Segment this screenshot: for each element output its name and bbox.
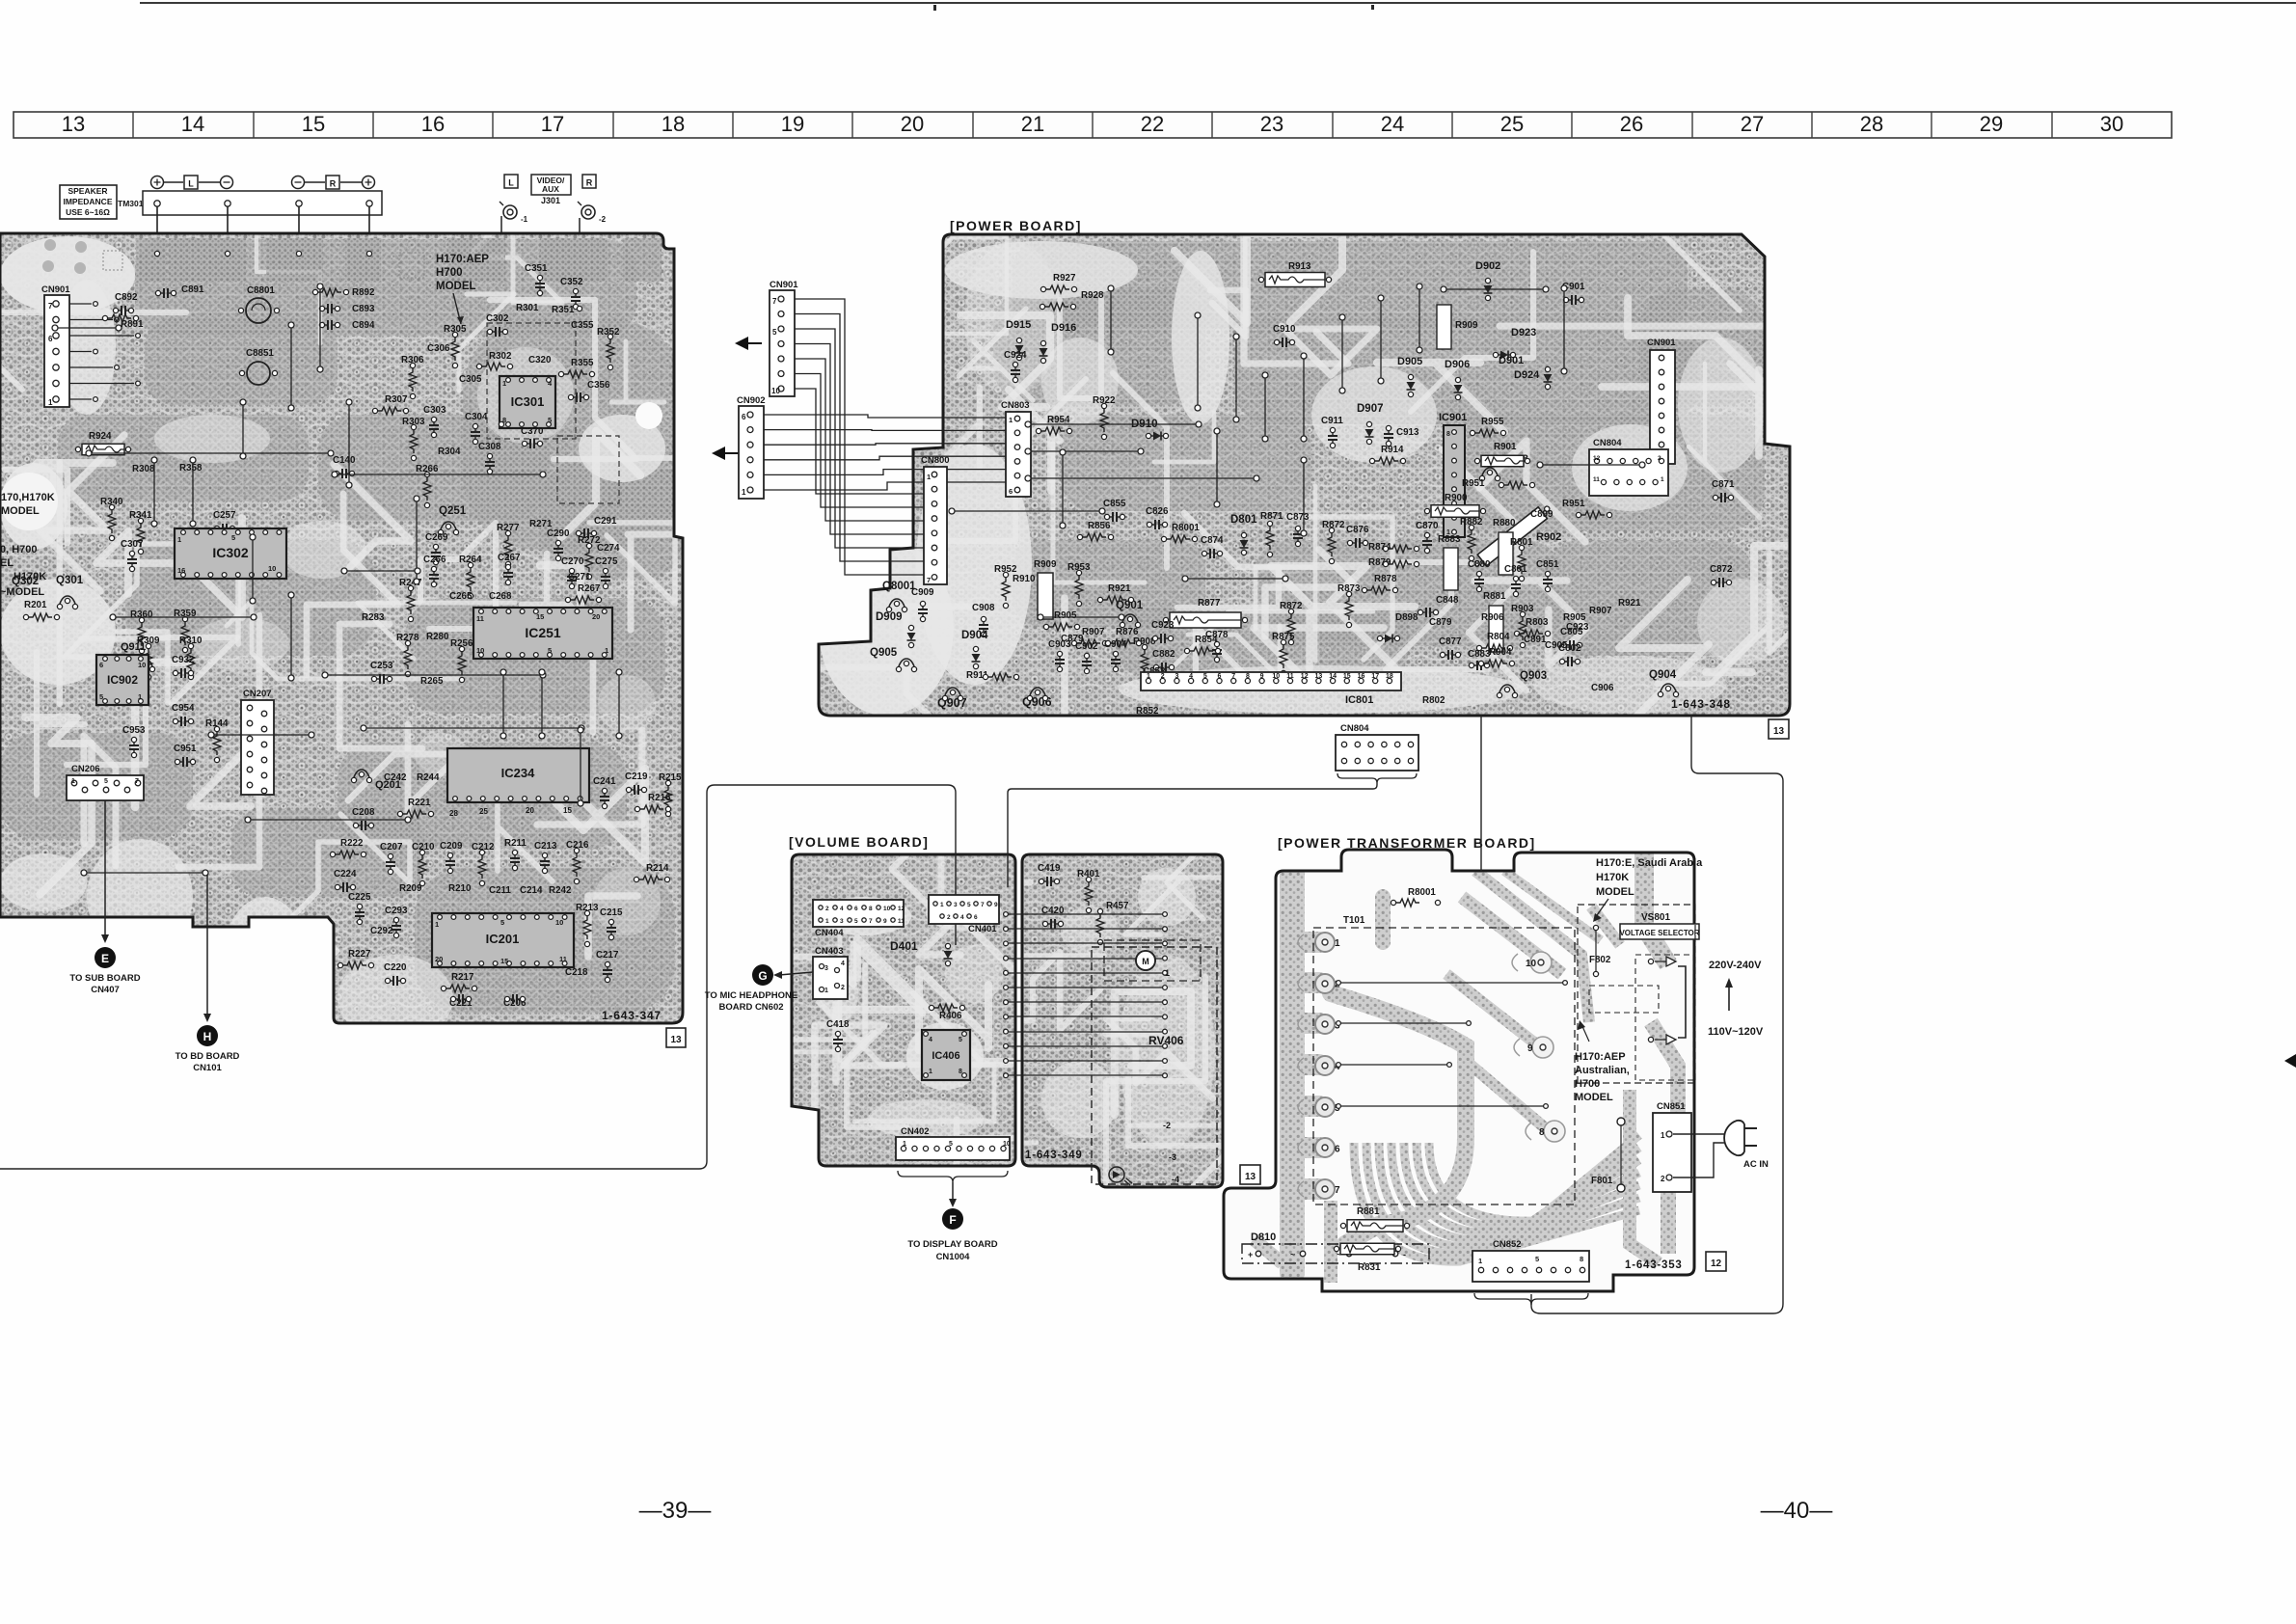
svg-text:10: 10 <box>1272 673 1280 680</box>
bracket under CN804 <box>1337 773 1417 783</box>
svg-text:IMPEDANCE: IMPEDANCE <box>63 197 112 206</box>
svg-text:C801: C801 <box>1504 564 1527 575</box>
svg-text:C953: C953 <box>122 725 146 736</box>
motor M redraw over ladder <box>1136 951 1155 970</box>
svg-text:T101: T101 <box>1343 915 1365 926</box>
svg-text:C906: C906 <box>1591 683 1614 693</box>
svg-text:14: 14 <box>181 112 204 136</box>
svg-text:D898: D898 <box>1395 612 1418 623</box>
svg-text:G: G <box>758 969 767 983</box>
svg-text:6: 6 <box>1218 673 1222 680</box>
svg-text:1: 1 <box>929 1069 932 1075</box>
svg-text:2: 2 <box>1658 455 1661 462</box>
svg-text:15: 15 <box>500 957 508 965</box>
svg-text:R267: R267 <box>578 583 601 594</box>
svg-text:R891: R891 <box>121 319 144 330</box>
svg-text:BOARD CN602: BOARD CN602 <box>718 1002 783 1013</box>
svg-text:R304: R304 <box>438 447 461 457</box>
svg-text:7: 7 <box>772 297 777 306</box>
svg-text:-4: -4 <box>1172 1175 1179 1184</box>
IC902 <box>96 655 149 705</box>
svg-text:IC901: IC901 <box>1439 412 1467 423</box>
svg-text:C924: C924 <box>1004 350 1027 361</box>
svg-text:1: 1 <box>1661 1131 1665 1140</box>
svg-text:26: 26 <box>1620 112 1643 136</box>
svg-text:C271: C271 <box>568 572 591 582</box>
svg-text:5: 5 <box>1535 1255 1539 1263</box>
svg-text:25: 25 <box>1500 112 1524 136</box>
svg-text:R892: R892 <box>352 287 375 298</box>
svg-text:20: 20 <box>435 955 443 963</box>
svg-text:D915: D915 <box>1006 319 1031 331</box>
svg-text:C267: C267 <box>498 553 521 563</box>
svg-text:1: 1 <box>940 902 944 908</box>
svg-text:R854: R854 <box>1195 635 1218 645</box>
svg-text:220V-240V: 220V-240V <box>1709 960 1762 971</box>
svg-text:Q904: Q904 <box>1649 669 1677 681</box>
svg-text:R906: R906 <box>1481 612 1504 623</box>
svg-text:C855: C855 <box>1103 499 1126 509</box>
svg-text:2: 2 <box>825 906 829 912</box>
svg-text:H170:AEP: H170:AEP <box>1575 1051 1626 1063</box>
svg-text:17: 17 <box>541 112 564 136</box>
svg-text:11: 11 <box>1593 476 1600 483</box>
svg-text:6: 6 <box>48 335 53 343</box>
svg-text:C217: C217 <box>596 950 619 961</box>
svg-text:C876: C876 <box>1346 525 1369 535</box>
svg-text:8: 8 <box>1580 1255 1583 1263</box>
svg-text:AC IN: AC IN <box>1743 1159 1769 1170</box>
svg-text:11: 11 <box>559 955 567 963</box>
svg-text:2: 2 <box>841 985 845 991</box>
svg-text:C208: C208 <box>352 807 375 818</box>
svg-text:C302: C302 <box>486 313 509 324</box>
svg-text:11: 11 <box>898 918 905 925</box>
svg-text:170,H170K: 170,H170K <box>1 492 55 503</box>
svg-text:4: 4 <box>840 906 844 912</box>
VS801 inner dashed boxes <box>1635 955 1693 1080</box>
svg-text:12: 12 <box>1711 1259 1722 1269</box>
svg-text:6: 6 <box>854 906 858 912</box>
svg-text:CN1004: CN1004 <box>936 1252 971 1262</box>
svg-text:11: 11 <box>476 614 484 623</box>
speaker polarity symbols left channel <box>151 176 233 189</box>
svg-text:C209: C209 <box>440 841 463 852</box>
svg-text:C894: C894 <box>352 320 375 331</box>
svg-text:-3: -3 <box>1169 1152 1176 1162</box>
svg-text:D907: D907 <box>1357 403 1384 415</box>
svg-text:7: 7 <box>869 918 873 925</box>
svg-text:C274: C274 <box>597 543 620 554</box>
svg-text:CN852: CN852 <box>1493 1239 1522 1250</box>
copper traces right region <box>1591 853 1678 1263</box>
svg-text:5: 5 <box>231 533 235 542</box>
svg-text:C892: C892 <box>115 292 138 303</box>
svg-text:R905: R905 <box>1054 610 1077 621</box>
sheet index box 13 main board <box>666 1028 686 1047</box>
svg-text:C275: C275 <box>595 556 618 567</box>
svg-text:C911: C911 <box>1321 416 1343 426</box>
svg-text:13: 13 <box>1315 673 1323 680</box>
svg-text:R881: R881 <box>1483 591 1506 602</box>
svg-text:VS801: VS801 <box>1641 912 1670 923</box>
svg-text:C910: C910 <box>1273 324 1296 335</box>
svg-text:5: 5 <box>99 692 103 701</box>
svg-text:3: 3 <box>840 918 844 925</box>
wire to flag H <box>206 873 208 1015</box>
svg-text:M: M <box>1142 957 1149 966</box>
svg-text:L: L <box>188 179 194 189</box>
svg-text:R211: R211 <box>504 838 527 849</box>
svg-text:7: 7 <box>48 302 53 311</box>
svg-text:1-643-348: 1-643-348 <box>1671 697 1731 711</box>
rectangle around motor <box>1104 940 1201 981</box>
svg-text:21: 21 <box>1021 112 1044 136</box>
dotted mounting square A <box>103 251 122 270</box>
svg-text:C207: C207 <box>380 842 403 853</box>
svg-text:19: 19 <box>781 112 804 136</box>
svg-text:TO MIC HEADPHONE: TO MIC HEADPHONE <box>705 990 797 1001</box>
svg-text:10: 10 <box>1003 1141 1011 1148</box>
svg-text:20: 20 <box>901 112 924 136</box>
sheet index box 13 power board <box>1769 719 1789 739</box>
svg-text:R878: R878 <box>1374 574 1397 584</box>
svg-text:5: 5 <box>772 328 777 337</box>
svg-text:28: 28 <box>449 809 458 818</box>
svg-text:C293: C293 <box>385 906 408 916</box>
svg-text:R910: R910 <box>1013 574 1036 584</box>
jumper wires power board <box>955 289 1639 617</box>
svg-text:C954: C954 <box>172 703 195 714</box>
svg-text:EL: EL <box>0 557 14 569</box>
svg-text:5: 5 <box>104 778 108 785</box>
svg-text:Q903: Q903 <box>1520 670 1547 682</box>
svg-text:MODEL: MODEL <box>1596 886 1634 898</box>
svg-text:10: 10 <box>1526 959 1537 969</box>
svg-text:-: - <box>1403 1250 1406 1259</box>
sheet index box 12 <box>1706 1252 1726 1271</box>
svg-text:H170:E, Saudi Arabia: H170:E, Saudi Arabia <box>1596 857 1703 869</box>
svg-text:C870: C870 <box>1416 521 1439 531</box>
svg-text:15: 15 <box>302 112 325 136</box>
svg-text:D902: D902 <box>1475 260 1500 272</box>
VIDEO/AUX jacks J301 <box>500 175 607 422</box>
svg-text:1: 1 <box>502 379 506 388</box>
svg-text:2: 2 <box>1661 1175 1665 1183</box>
svg-text:13: 13 <box>1245 1172 1256 1182</box>
svg-text:1: 1 <box>435 920 439 929</box>
flag E to sub board <box>95 947 116 968</box>
bracket under CN402 <box>898 1171 1008 1182</box>
svg-text:C307: C307 <box>121 539 144 550</box>
svg-text:D801: D801 <box>1230 514 1257 526</box>
svg-text:H170K: H170K <box>14 571 46 582</box>
ladder wires CN401 to motor sub board <box>1009 914 1162 1075</box>
right edge registration mark <box>2284 1054 2296 1068</box>
svg-text:1: 1 <box>138 692 142 701</box>
pads on speaker wires <box>154 251 159 256</box>
svg-text:C899: C899 <box>1530 509 1553 520</box>
svg-text:L: L <box>508 178 514 188</box>
svg-text:C848: C848 <box>1436 595 1459 606</box>
svg-text:-2: -2 <box>599 215 607 224</box>
svg-text:IC301: IC301 <box>511 394 545 409</box>
svg-text:C220: C220 <box>384 962 407 973</box>
svg-text:C291: C291 <box>594 516 617 527</box>
svg-text:IC302: IC302 <box>212 545 249 560</box>
svg-text:F802: F802 <box>1589 955 1611 965</box>
svg-text:AUX: AUX <box>542 184 559 194</box>
svg-text:R955: R955 <box>1481 417 1504 427</box>
svg-text:C893: C893 <box>352 304 375 314</box>
page top edge line <box>140 2 2296 4</box>
T101 secondary pads 10 9 8 <box>1530 952 1552 973</box>
svg-text:7: 7 <box>981 902 985 908</box>
svg-text:USE 6~16Ω: USE 6~16Ω <box>66 207 110 217</box>
svg-text:R308: R308 <box>132 464 155 474</box>
svg-text:C218: C218 <box>565 967 588 978</box>
svg-text:CN901: CN901 <box>1647 338 1676 348</box>
svg-text:C213: C213 <box>534 841 557 852</box>
svg-text:F801: F801 <box>1591 1176 1613 1186</box>
svg-text:D909: D909 <box>876 611 903 623</box>
svg-text:F: F <box>949 1213 956 1227</box>
svg-text:C908: C908 <box>972 603 995 613</box>
svg-text:C923: C923 <box>1566 622 1589 633</box>
potentiometer RV406 dashed outline <box>1092 947 1217 1184</box>
svg-text:17: 17 <box>1371 673 1379 680</box>
svg-text:MODEL: MODEL <box>1575 1092 1613 1103</box>
svg-text:20: 20 <box>592 612 600 621</box>
svg-text:1: 1 <box>1335 938 1340 949</box>
fusible resistor R831 transformer <box>1334 1246 1338 1251</box>
svg-text:CN803: CN803 <box>1001 400 1030 411</box>
svg-text:C356: C356 <box>587 380 610 391</box>
svg-text:C418: C418 <box>826 1019 850 1030</box>
T101 dashed outline <box>1313 928 1575 1204</box>
svg-text:C880: C880 <box>1468 559 1491 570</box>
svg-text:C873: C873 <box>1286 512 1310 523</box>
svg-text:CN901: CN901 <box>770 280 798 290</box>
svg-text:R: R <box>330 179 337 189</box>
svg-text:R877: R877 <box>1198 598 1221 609</box>
svg-text:C290: C290 <box>547 528 570 539</box>
voltage range arrow <box>1728 986 1730 1011</box>
svg-text:R804: R804 <box>1487 632 1510 642</box>
svg-text:8: 8 <box>1539 1127 1545 1138</box>
svg-text:R: R <box>586 178 593 188</box>
svg-text:R358: R358 <box>179 463 203 474</box>
svg-text:1: 1 <box>1478 1257 1482 1265</box>
svg-text:1-643-349: 1-643-349 <box>1025 1150 1083 1161</box>
svg-text:CN404: CN404 <box>815 928 844 938</box>
IC234 <box>447 748 589 818</box>
svg-text:16: 16 <box>177 566 185 575</box>
copper diagonal traces center <box>1446 871 1601 1130</box>
svg-text:3: 3 <box>954 902 958 908</box>
svg-text:R280: R280 <box>426 632 449 642</box>
svg-text:C268: C268 <box>489 591 512 602</box>
svg-text:5: 5 <box>949 1141 953 1148</box>
svg-text:TO DISPLAY BOARD: TO DISPLAY BOARD <box>907 1239 997 1250</box>
svg-text:6: 6 <box>1009 487 1013 496</box>
svg-text:5: 5 <box>500 918 504 927</box>
svg-text:4: 4 <box>1189 673 1193 680</box>
copper traces bottom bundle <box>1254 1135 1639 1283</box>
svg-text:C882: C882 <box>1152 649 1175 660</box>
svg-text:6: 6 <box>742 413 746 421</box>
svg-text:C265: C265 <box>449 591 473 602</box>
connector CN404 <box>813 900 904 927</box>
svg-text:5: 5 <box>548 646 552 655</box>
svg-text:R209: R209 <box>399 883 422 894</box>
svg-text:C909: C909 <box>911 587 934 598</box>
svg-text:CN207: CN207 <box>243 689 272 699</box>
dotted mounting square B <box>399 253 424 278</box>
svg-text:H700: H700 <box>436 267 463 279</box>
svg-text:R214: R214 <box>646 863 669 874</box>
svg-text:CN401: CN401 <box>968 924 997 934</box>
svg-text:C872: C872 <box>1710 564 1733 575</box>
connector CN401 <box>929 895 999 924</box>
svg-text:C242: C242 <box>384 772 407 783</box>
VS801 outer dashed box <box>1578 905 1695 1083</box>
svg-text:C308: C308 <box>478 442 501 452</box>
jumper wires transformer board <box>1340 983 1562 1106</box>
svg-text:13: 13 <box>670 1035 682 1045</box>
svg-text:12: 12 <box>898 906 905 912</box>
svg-text:R803: R803 <box>1526 617 1549 628</box>
AC plug and wires <box>1673 1133 1737 1135</box>
svg-text:—39—: —39— <box>639 1498 712 1524</box>
svg-text:0, H700: 0, H700 <box>0 544 38 555</box>
svg-text:1-643-347: 1-643-347 <box>602 1009 662 1022</box>
svg-text:Q251: Q251 <box>439 505 467 517</box>
svg-text:C891: C891 <box>1524 635 1547 645</box>
svg-text:8: 8 <box>1246 673 1250 680</box>
svg-text:5: 5 <box>854 918 858 925</box>
svg-text:R901: R901 <box>1494 442 1517 452</box>
svg-text:C351: C351 <box>525 263 548 274</box>
svg-text:C253: C253 <box>370 661 393 671</box>
AC wiring enclosure line <box>1531 716 1783 1313</box>
svg-text:R221: R221 <box>408 798 431 808</box>
svg-text:R900: R900 <box>1445 493 1468 503</box>
svg-text:R802: R802 <box>1422 695 1445 706</box>
svg-text:8: 8 <box>1446 431 1450 438</box>
svg-text:R951: R951 <box>1562 499 1585 509</box>
svg-text:C214: C214 <box>520 885 543 896</box>
svg-text:3: 3 <box>1175 673 1178 680</box>
svg-text:7: 7 <box>1335 1185 1340 1196</box>
svg-text:+: + <box>1248 1250 1253 1259</box>
svg-text:R905: R905 <box>1563 612 1586 623</box>
svg-text:R355: R355 <box>571 358 594 368</box>
svg-text:C306: C306 <box>427 343 450 354</box>
svg-text:7: 7 <box>135 778 139 785</box>
svg-text:1: 1 <box>605 646 608 655</box>
svg-text:CN901: CN901 <box>41 284 70 295</box>
svg-text:SPEAKER: SPEAKER <box>68 186 107 196</box>
IC302 <box>175 528 286 579</box>
svg-text:8: 8 <box>959 1069 962 1075</box>
svg-text:24: 24 <box>1381 112 1404 136</box>
svg-text:C320: C320 <box>528 355 552 365</box>
svg-text:C352: C352 <box>560 277 583 287</box>
svg-text:10: 10 <box>476 646 484 655</box>
svg-text:1: 1 <box>903 1141 906 1148</box>
IC801 pin strip <box>1141 672 1401 690</box>
wire power board to transformer board <box>1480 716 1482 871</box>
wires CN902 to CN803 <box>764 415 1006 490</box>
svg-text:TO BD BOARD: TO BD BOARD <box>176 1051 240 1062</box>
svg-text:18: 18 <box>1386 673 1393 680</box>
svg-text:10: 10 <box>555 918 563 927</box>
svg-text:C851: C851 <box>1536 559 1559 570</box>
svg-text:C305: C305 <box>459 374 482 385</box>
svg-text:12: 12 <box>1301 673 1309 680</box>
svg-text:C877: C877 <box>1439 636 1462 647</box>
svg-text:CN804: CN804 <box>1593 438 1622 448</box>
svg-text:C269: C269 <box>425 532 448 543</box>
svg-text:D906: D906 <box>1445 359 1470 370</box>
svg-text:R904: R904 <box>1489 647 1512 658</box>
svg-text:R921: R921 <box>1618 598 1641 609</box>
svg-text:R210: R210 <box>448 883 472 894</box>
svg-text:1: 1 <box>71 778 75 785</box>
wire page-left to volume board D401 <box>0 785 956 1169</box>
svg-text:C8851: C8851 <box>246 348 274 359</box>
svg-text:25: 25 <box>479 807 488 816</box>
svg-text:R876: R876 <box>1116 627 1139 637</box>
svg-text:CN851: CN851 <box>1657 1101 1686 1112</box>
svg-text:13: 13 <box>1773 726 1785 737</box>
svg-text:R907: R907 <box>1082 627 1105 637</box>
svg-text:1-643-353: 1-643-353 <box>1625 1259 1683 1271</box>
svg-text:7: 7 <box>927 576 931 584</box>
svg-text:10: 10 <box>883 906 891 912</box>
svg-text:C304: C304 <box>465 412 488 422</box>
svg-text:D916: D916 <box>1051 322 1076 334</box>
svg-text:R216: R216 <box>648 793 671 803</box>
svg-text:18: 18 <box>662 112 685 136</box>
svg-text:9: 9 <box>994 902 998 908</box>
svg-text:1: 1 <box>1147 673 1150 680</box>
svg-text:16: 16 <box>1358 673 1365 680</box>
dashed option boxes around IC301 <box>487 323 576 439</box>
left arrow marker upper <box>735 337 748 350</box>
svg-text:R8001: R8001 <box>1172 523 1200 533</box>
pads on jack wires <box>499 421 503 426</box>
svg-text:R351: R351 <box>552 305 575 315</box>
svg-text:C905: C905 <box>1545 640 1568 651</box>
svg-text:9: 9 <box>1527 1043 1533 1054</box>
svg-text:5: 5 <box>959 1037 962 1043</box>
svg-text:3: 3 <box>824 965 828 972</box>
svg-text:1: 1 <box>1661 476 1664 483</box>
svg-text:5: 5 <box>1203 673 1207 680</box>
svg-text:TM301: TM301 <box>118 199 144 208</box>
svg-text:10: 10 <box>771 387 780 395</box>
svg-text:R227: R227 <box>348 949 371 960</box>
svg-text:1: 1 <box>927 473 931 481</box>
svg-text:R856: R856 <box>1088 521 1111 531</box>
svg-text:27: 27 <box>1741 112 1764 136</box>
speaker impedance note box <box>60 185 117 219</box>
svg-text:R457: R457 <box>1106 901 1129 911</box>
svg-text:R913: R913 <box>1288 261 1311 272</box>
svg-text:H700: H700 <box>1575 1078 1600 1090</box>
